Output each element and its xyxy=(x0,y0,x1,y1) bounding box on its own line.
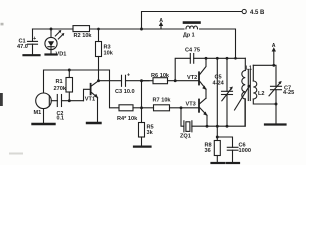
svg-text:VT2: VT2 xyxy=(187,75,197,81)
svg-text:+: + xyxy=(127,73,130,79)
junction C5 top xyxy=(226,57,229,60)
junction C3-R6 node xyxy=(140,79,143,82)
svg-text:4-25: 4-25 xyxy=(283,90,294,96)
junction C2-R1 xyxy=(68,99,71,102)
ground under C6 xyxy=(227,162,240,164)
scan artifact top left xyxy=(1,23,4,26)
junction W2 emitter xyxy=(206,125,209,128)
inductor L2 xyxy=(253,65,276,104)
ground under VD1 xyxy=(46,53,57,55)
svg-text:M1: M1 xyxy=(34,110,42,116)
svg-text:3k: 3k xyxy=(147,130,154,136)
junction rail-supply xyxy=(140,28,143,31)
choke Dr1 xyxy=(184,23,200,29)
crystal ZQ1 xyxy=(181,108,207,132)
wire C4 down xyxy=(216,58,218,137)
junction antenna xyxy=(272,64,275,67)
svg-text:+: + xyxy=(33,36,36,42)
svg-text:1000: 1000 xyxy=(239,148,251,154)
resistor R1 xyxy=(66,70,73,101)
svg-text:VT1: VT1 xyxy=(85,97,95,103)
wire emitter node W2 xyxy=(207,99,245,126)
wire to VT1 base xyxy=(84,89,90,100)
svg-text:ZQ1: ZQ1 xyxy=(180,134,191,140)
svg-text:47.0: 47.0 xyxy=(17,44,28,50)
transistor VT2 xyxy=(199,58,207,98)
junction R4-R7-R5 xyxy=(140,106,143,109)
wire main rail xyxy=(33,28,74,30)
scan artifact bottom left xyxy=(9,153,23,155)
junction R1 top xyxy=(68,69,71,72)
LED VD1 xyxy=(45,29,64,54)
resistor R5 xyxy=(139,108,145,146)
svg-text:VD1: VD1 xyxy=(56,52,67,58)
capacitor C4 xyxy=(175,54,245,81)
svg-text:Др 1: Др 1 xyxy=(183,33,195,39)
junction VT1 collector xyxy=(97,79,100,82)
core L1-L2 xyxy=(248,70,250,101)
svg-text:A: A xyxy=(159,18,163,24)
resistor R8 xyxy=(214,137,220,162)
inductor L1 xyxy=(242,58,246,126)
junction C4 top xyxy=(216,57,219,60)
ground under VT1 xyxy=(87,122,101,124)
ground under M1 xyxy=(33,123,55,125)
transistor VT3 xyxy=(199,98,208,126)
ground under R5 xyxy=(134,146,151,148)
svg-text:0.1: 0.1 xyxy=(57,116,65,122)
junction VD1 xyxy=(50,28,53,31)
wire collector to C3 xyxy=(99,80,122,82)
svg-text:4.5 В: 4.5 В xyxy=(250,10,265,16)
capacitor C6 xyxy=(217,137,238,162)
svg-text:36: 36 xyxy=(205,148,211,154)
svg-text:R4* 10k: R4* 10k xyxy=(117,116,138,122)
microphone wire node xyxy=(44,70,120,108)
junction L2 bottom to C7 xyxy=(275,103,278,106)
svg-text:R6 10k: R6 10k xyxy=(151,73,170,79)
svg-text:4-24: 4-24 xyxy=(213,81,225,87)
junction W2 C5 xyxy=(226,125,229,128)
junction supply W1 xyxy=(234,57,237,60)
capacitor C1 xyxy=(28,29,38,54)
svg-text:10k: 10k xyxy=(104,51,114,57)
svg-text:R7 10k: R7 10k xyxy=(153,98,172,104)
capacitor C3 xyxy=(122,73,150,87)
svg-text:L2: L2 xyxy=(258,91,265,97)
wire node vertical xyxy=(141,81,143,108)
wire supply top line xyxy=(142,12,242,30)
resistor R4 xyxy=(119,105,142,111)
resistor R6 xyxy=(142,78,199,84)
resistor R7 xyxy=(142,105,199,111)
capacitor C2 xyxy=(51,95,83,107)
wire rail right xyxy=(200,29,236,59)
wire rail mid xyxy=(90,28,184,30)
scan artifact left edge xyxy=(0,93,3,106)
svg-text:R1: R1 xyxy=(56,79,63,85)
capacitor C5 xyxy=(222,58,233,126)
svg-text:C4 75: C4 75 xyxy=(185,48,200,54)
wire L2 to C7 xyxy=(253,65,276,86)
junction W2 C4 xyxy=(216,125,219,128)
microphone M1 xyxy=(36,93,52,123)
svg-text:A: A xyxy=(272,43,276,49)
ground under C1 xyxy=(24,54,40,56)
junction C4 base xyxy=(174,79,177,82)
junction ZQ1 top xyxy=(180,106,183,109)
svg-text:VT3: VT3 xyxy=(186,101,196,107)
antenna A right xyxy=(272,43,276,65)
ground under C7 xyxy=(265,123,286,125)
trimmer arrow L1 xyxy=(235,84,251,110)
resistor R2 xyxy=(73,26,90,32)
junction R3 xyxy=(97,28,100,31)
antenna A left xyxy=(159,18,163,29)
resistor R3 xyxy=(96,29,102,81)
terminal 4.5V xyxy=(242,9,246,13)
svg-text:R2 10k: R2 10k xyxy=(74,33,93,39)
capacitor C7 xyxy=(269,81,282,124)
svg-text:C3 10.0: C3 10.0 xyxy=(115,89,135,95)
junction VT2 collector rail xyxy=(205,57,208,60)
transistor VT1 xyxy=(91,81,99,122)
ground under R8 xyxy=(212,162,225,164)
svg-text:270k: 270k xyxy=(54,86,67,92)
junction R8 C6 xyxy=(216,136,219,139)
